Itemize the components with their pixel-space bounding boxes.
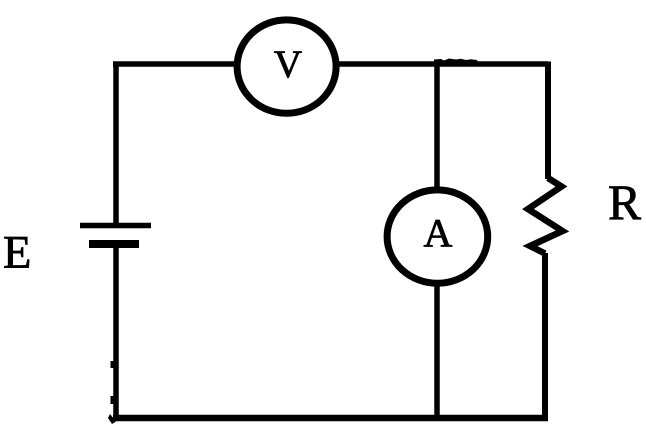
- wire: left vertical lower (battery to bottom wire): [113, 244, 119, 418]
- svg-text:R: R: [608, 175, 641, 230]
- wire: left vertical upper (top corner to battery): [113, 62, 119, 229]
- resistor R: zigzag: [528, 178, 563, 254]
- wire: right vertical lower (resistor to bottom): [542, 253, 548, 421]
- node: junction artifact on top wire: [434, 59, 478, 63]
- voltmeter U-V: circle: [237, 20, 336, 113]
- wire: ammeter branch upper (junction to ammeter): [434, 64, 440, 188]
- wire: bottom-left corner overshoot: [108, 414, 116, 424]
- wire: right vertical upper (corner to resistor): [545, 62, 551, 180]
- svg-text:E: E: [3, 228, 31, 279]
- battery E: bottom plate (short, thick): [89, 240, 139, 248]
- battery E: top plate (long): [80, 223, 151, 229]
- wire: top-left horizontal (battery top to voltmeter): [113, 61, 234, 67]
- svg-text:A: A: [424, 211, 453, 256]
- wire: ammeter branch lower (ammeter to bottom wire): [434, 286, 440, 418]
- ammeter U-A: circle: [387, 190, 488, 283]
- svg-text:V: V: [274, 43, 302, 86]
- wire: top-right horizontal (voltmeter to top-right corner): [339, 61, 548, 67]
- wire: scan nub on left wire (upper): [111, 361, 114, 368]
- wire: bottom horizontal: [113, 415, 548, 422]
- wire: scan nub on left wire (lower): [111, 396, 114, 404]
